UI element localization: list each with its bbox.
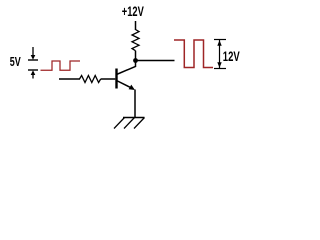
waveform input 5V square wave (red) (41, 61, 81, 70)
wire supply to resistor (135, 21, 137, 30)
dimension bottom bar 12V (214, 68, 226, 70)
transistor Q1 collector lead (117, 66, 136, 74)
transistor Q1 emitter lead with arrow (117, 81, 134, 90)
svg-text:5V: 5V (10, 56, 21, 70)
svg-text:+12V: +12V (122, 3, 144, 19)
svg-text:12V: 12V (223, 48, 240, 64)
waveform output 12V square wave (red) (174, 40, 213, 68)
dimension arrow below (points up to bottom bar) (31, 70, 36, 75)
dimension shaft 12V (219, 40, 221, 68)
resistor R2 base (horizontal zigzag) (80, 76, 101, 83)
label 12V output (223, 48, 240, 64)
resistor R1 collector (vertical zigzag) (132, 30, 139, 51)
label +12V supply (122, 3, 144, 19)
dimension top bar 5V (28, 59, 38, 61)
wire resistor to collector node (135, 51, 137, 67)
node collector junction dot (133, 58, 138, 63)
wire base input (59, 78, 80, 80)
wire resistor to base (101, 78, 116, 80)
transistor Q1 base bar (115, 69, 117, 89)
dimension arrowhead up 12V (217, 40, 221, 46)
dimension arrow above (points down to top bar) (32, 47, 34, 56)
wire emitter to ground (134, 90, 136, 118)
dimension top bar 12V (214, 39, 226, 41)
dimension arrowhead down 12V (217, 62, 221, 67)
label 5V input (10, 56, 21, 70)
wire output (collector node to right) (136, 60, 175, 62)
dimension bottom bar 5V (28, 69, 38, 71)
ground chassis symbol (123, 117, 145, 119)
